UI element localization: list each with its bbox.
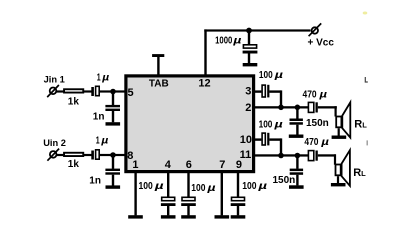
svg-text:100: 100 [242, 181, 257, 192]
capacitor 1µ (input 2) [91, 150, 99, 160]
wire 470µ to speaker 2 [318, 154, 336, 156]
wire input1 to R [56, 90, 64, 92]
svg-text:470: 470 [304, 137, 318, 148]
svg-text:100: 100 [191, 183, 206, 194]
wire pin 1 to ground [134, 173, 136, 215]
svg-text:12: 12 [198, 78, 210, 90]
ground pin 9 [231, 215, 246, 218]
capacitor 470µ (ch 1) [308, 102, 317, 112]
svg-text:Uin 2: Uin 2 [43, 138, 66, 148]
wire 150n to ground (ch 2) [296, 175, 298, 186]
wire pin9 cap to ground [237, 206, 239, 215]
capacitor 1n (input 1) [105, 105, 120, 111]
wire 150n to ground (ch 1) [296, 125, 298, 135]
wire supply rail horizontal [204, 29, 310, 31]
ground pin 6 [181, 215, 196, 218]
wire pin 3 stub [255, 90, 261, 92]
yellow speck artifact [363, 12, 368, 15]
wire input2 to R [57, 154, 65, 156]
svg-text:µ: µ [273, 70, 283, 81]
wire pin3 cap right [269, 90, 281, 92]
wire 1000µ to ground [248, 54, 250, 64]
node output 2 zobel junction [295, 153, 301, 159]
svg-text:1n: 1n [93, 112, 105, 123]
svg-text:Jin 1: Jin 1 [44, 75, 65, 85]
capacitor 150n (ch 2) [290, 169, 303, 175]
TAB heatsink symbol [152, 54, 164, 75]
svg-text:470: 470 [303, 90, 317, 101]
svg-text:1k: 1k [68, 96, 80, 107]
svg-text:µ: µ [100, 136, 108, 147]
ground pin 7 [215, 215, 230, 218]
capacitor 100µ bootstrap (pin 10) [262, 133, 269, 146]
svg-text:µ: µ [320, 137, 329, 148]
svg-text:100: 100 [259, 70, 273, 81]
wire pin 7 to ground [221, 173, 223, 215]
capacitor 1n (input 2) [105, 169, 120, 175]
node output 2 bootstrap junction [278, 153, 284, 159]
capacitor 1000µ [243, 45, 258, 54]
capacitor 100µ (pin 6) [181, 197, 196, 206]
wire R to C (input 1) [84, 90, 92, 92]
wire junction to 150n (ch 2) [296, 156, 298, 169]
svg-text:100: 100 [139, 181, 154, 192]
svg-text:9: 9 [236, 159, 242, 171]
svg-text:150n: 150n [273, 175, 296, 186]
wire junction down to 1n (input 2) [112, 155, 114, 169]
svg-text:150n: 150n [306, 118, 329, 129]
node input 1 junction [110, 89, 116, 95]
IC U1 body [126, 76, 254, 172]
wire pin10 cap down to output 2 [280, 138, 282, 156]
wire down to speaker 1 [335, 106, 337, 116]
svg-text:µ: µ [318, 90, 327, 101]
svg-text:µ: µ [153, 181, 164, 192]
terminal +Vcc [309, 23, 322, 36]
capacitor 100µ bootstrap (pin 3) [262, 85, 269, 98]
capacitor 100µ (pin 9) [231, 197, 246, 206]
capacitor 150n (ch 1) [290, 119, 303, 125]
ground below 1000µ [243, 63, 258, 66]
speaker RL (channel 2) [336, 150, 350, 186]
ground 150n ch 1 [289, 135, 304, 138]
capacitor 1000µ lead [248, 31, 250, 45]
speaker RL (channel 1) [336, 102, 350, 137]
svg-text:1n: 1n [89, 175, 101, 186]
svg-text:µ: µ [257, 181, 267, 192]
svg-text:100: 100 [259, 120, 273, 131]
node output 1 bootstrap junction [278, 105, 284, 111]
wire output 2 (pin 11) [255, 154, 308, 156]
wire pin4 cap to ground [167, 206, 169, 215]
ground pin 1 [128, 215, 143, 218]
wire pin 10 stub [255, 138, 261, 140]
svg-text:10: 10 [240, 134, 252, 146]
svg-text:2: 2 [245, 102, 251, 114]
svg-text:4: 4 [165, 159, 172, 171]
wire pin 12 to supply rail [204, 29, 206, 75]
capacitor 100µ (pin 4) [161, 197, 176, 206]
wire junction down to 1n (input 1) [112, 92, 114, 106]
svg-text:5: 5 [128, 87, 134, 99]
svg-text:+ Vcc: + Vcc [308, 38, 335, 49]
ground input 2 [106, 185, 121, 188]
svg-text:1000: 1000 [215, 35, 233, 46]
node input 2 junction [110, 152, 116, 158]
capacitor 1µ (input 1) [91, 86, 99, 96]
svg-text:TAB: TAB [149, 79, 169, 90]
wire speaker 1 to ground [338, 128, 340, 135]
capacitor 470µ (ch 2) [308, 151, 317, 161]
svg-text:1: 1 [97, 72, 101, 83]
terminal input 1 [47, 85, 59, 97]
node supply junction [246, 28, 252, 34]
wire 1n to ground (input 2) [112, 175, 114, 186]
resistor 1k (input 1) [64, 89, 83, 92]
resistor 1k (input 2) [64, 153, 83, 156]
svg-text:1k: 1k [68, 159, 80, 170]
svg-text:µ: µ [101, 72, 109, 83]
wire pin 6 lead [187, 173, 189, 197]
svg-text:6: 6 [186, 159, 192, 171]
svg-text:7: 7 [219, 159, 225, 171]
ground pin 4 [161, 215, 176, 218]
wire down to speaker 2 [334, 154, 336, 164]
wire pin 4 lead [167, 173, 169, 197]
wire speaker 2 to ground [337, 176, 339, 183]
wire R to C (input 2) [84, 154, 92, 156]
wire pin 9 lead [237, 173, 239, 197]
ground speaker 1 [332, 136, 347, 139]
wire pin10 cap right [269, 138, 281, 140]
wire C to pin 5 [100, 90, 126, 92]
stray mark right edge lower [367, 140, 368, 145]
wire 1n to ground (input 1) [112, 111, 114, 122]
svg-text:3: 3 [245, 85, 251, 97]
wire output 1 (pin 2) [255, 106, 308, 108]
svg-text:µ: µ [232, 35, 242, 46]
ground 150n ch 2 [289, 185, 304, 189]
wire pin6 cap to ground [187, 206, 189, 215]
ground input 1 [106, 122, 121, 125]
svg-text:1: 1 [132, 159, 138, 171]
node output 1 zobel junction [295, 105, 301, 111]
wire 470µ to speaker 1 [318, 106, 337, 108]
svg-text:µ: µ [273, 120, 283, 131]
wire junction to 150n (ch 1) [296, 107, 298, 118]
wire pin3 cap down to output 1 [280, 90, 282, 108]
ground speaker 2 [331, 183, 346, 186]
stray mark right edge upper [365, 77, 368, 82]
svg-text:RL: RL [353, 167, 366, 179]
svg-text:1: 1 [96, 136, 100, 147]
svg-text:µ: µ [206, 183, 216, 194]
wire C to pin 8 [100, 154, 126, 156]
terminal input 2 [47, 149, 59, 161]
svg-text:RL: RL [354, 118, 367, 130]
